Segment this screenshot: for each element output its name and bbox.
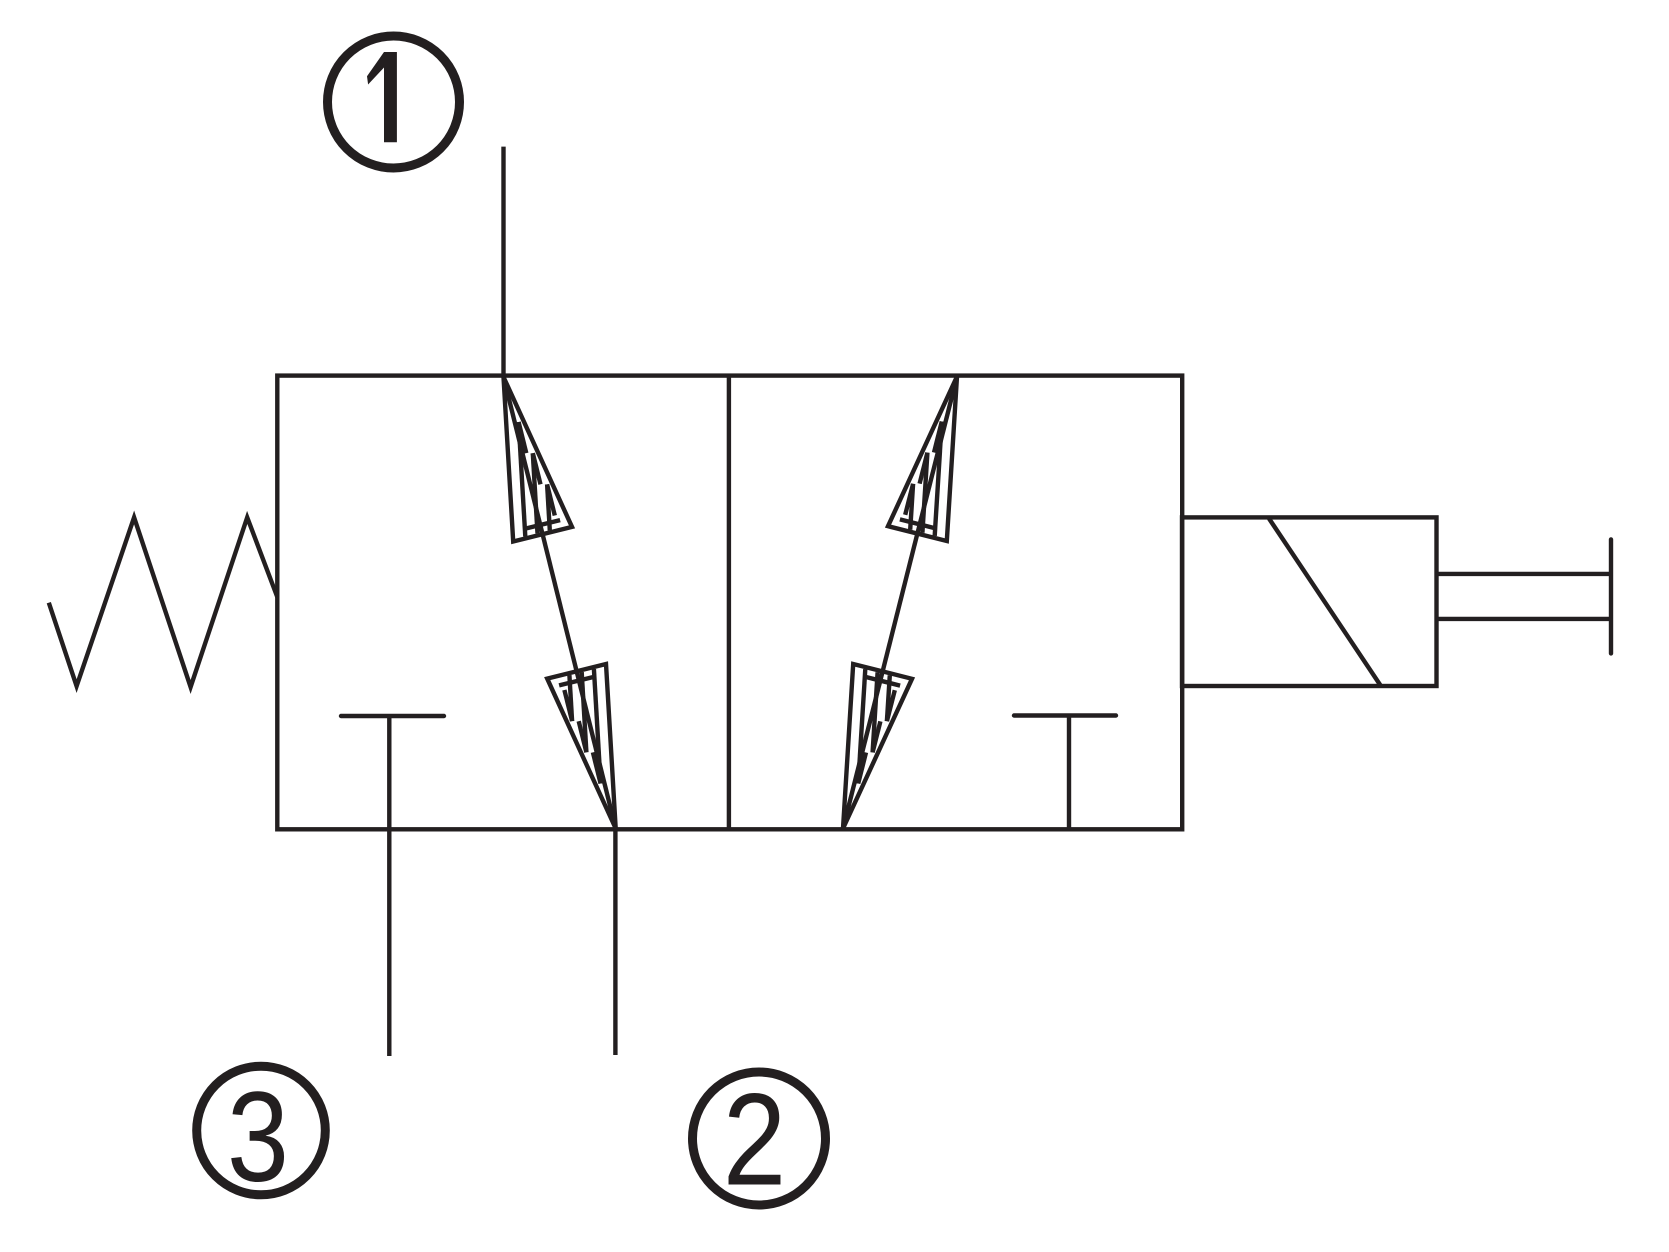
arrowhead downward (right position flow path)	[843, 664, 912, 829]
manual override rod top line	[1437, 572, 1612, 576]
port 3 line with blocked-port stem (left position)	[387, 716, 391, 1056]
port 1 label circle	[328, 36, 460, 168]
port 1 label digit	[367, 52, 397, 142]
solenoid diagonal	[1269, 519, 1380, 686]
port 2 line	[613, 829, 617, 1055]
arrowhead toward port 1 (left position flow path)	[504, 377, 573, 542]
flow path shaft, right position	[843, 377, 957, 829]
svg-text:3: 3	[227, 1066, 289, 1209]
arrowhead toward port 2 (left position flow path)	[547, 664, 616, 829]
blocked port T-bar (right position)	[1014, 713, 1116, 717]
flow path shaft, left position (port 1 to port 2)	[504, 377, 616, 829]
position divider	[727, 376, 731, 830]
port 1 line	[501, 147, 505, 376]
return spring	[49, 517, 277, 687]
manual override rod bottom line	[1437, 617, 1612, 621]
manual override end bar	[1609, 539, 1613, 653]
svg-text:2: 2	[723, 1067, 786, 1213]
valve body box (two positions)	[277, 376, 1182, 830]
port 2 label circle	[693, 1072, 826, 1205]
blocked port 3 T-bar (left position)	[341, 714, 444, 718]
blocked port stem (right position)	[1067, 716, 1071, 830]
arrowhead upward (right position flow path)	[888, 377, 957, 542]
solenoid box	[1182, 517, 1437, 686]
port 3 label circle	[197, 1066, 326, 1195]
